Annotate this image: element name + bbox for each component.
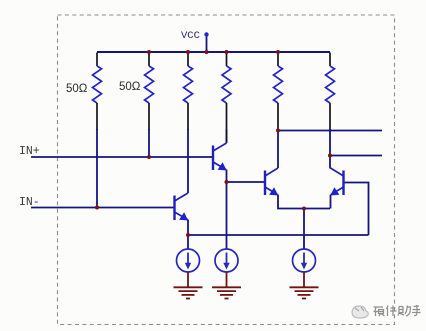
- node R6-outB: [328, 154, 332, 158]
- node rail-CS1: [186, 233, 190, 237]
- node bus-R4: [225, 50, 229, 54]
- ground G3: [290, 272, 319, 299]
- wire R3 bottom to Q2 collector: [187, 129, 189, 193]
- wire R2 bottom to IN+: [148, 129, 150, 157]
- svg-text:50Ω: 50Ω: [119, 81, 141, 93]
- wire output line B: [330, 155, 382, 157]
- node R2-IN+: [147, 155, 151, 159]
- node R1-IN-: [95, 206, 99, 210]
- watermark icon: [352, 306, 368, 318]
- wire common emitter down to CS3: [303, 209, 305, 250]
- resistor R4: [222, 53, 231, 131]
- transistor Q1: [213, 143, 227, 171]
- wire output line A: [278, 130, 382, 132]
- border dashed frame: [58, 15, 395, 325]
- wire Q2 emitter down to CS1: [187, 220, 189, 250]
- resistor R1 50ohm: [93, 53, 102, 131]
- glyph 3: [398, 306, 411, 317]
- ground G2: [212, 272, 241, 299]
- wire Q4 base feedback: [344, 183, 369, 236]
- svg-text:IN-: IN-: [19, 196, 40, 209]
- node bus-R2: [147, 50, 151, 54]
- node R5-outA: [276, 129, 280, 133]
- glyph 2: [387, 306, 397, 317]
- transistor Q2: [175, 193, 189, 221]
- wire IN+ net: [31, 156, 213, 158]
- ground G1: [174, 272, 203, 299]
- glyph 4: [412, 305, 421, 316]
- glyph 1: [374, 307, 385, 316]
- resistor R6: [326, 53, 335, 131]
- wire Q1 collector up: [226, 130, 228, 143]
- current source I2: [215, 249, 238, 272]
- wire R5 bottom to Q3 collector: [277, 129, 279, 168]
- resistor R5: [274, 53, 283, 131]
- wire R4 bottom to Q1 collector: [226, 129, 228, 143]
- node bus-VCC: [205, 50, 209, 54]
- wire Q3 emitter to common: [278, 195, 330, 209]
- svg-text:IN+: IN+: [19, 145, 40, 158]
- node bus-R3: [186, 50, 190, 54]
- wire VCC bus: [97, 51, 330, 53]
- current source I1: [177, 249, 200, 272]
- current source I3: [293, 249, 316, 272]
- node bus-R5: [276, 50, 280, 54]
- node diff-emitters: [302, 207, 306, 211]
- wire Q1 emitter down to rail: [226, 170, 228, 250]
- node Q1e-Q3b: [225, 180, 229, 184]
- resistor R3: [184, 53, 193, 131]
- wire VCC stub: [206, 37, 208, 53]
- wire Q4 emitter to common: [330, 195, 332, 209]
- resistor R2 50ohm: [145, 53, 154, 131]
- svg-text:50Ω: 50Ω: [66, 83, 88, 95]
- node VCC dot: [204, 32, 208, 36]
- watermark text: [374, 305, 421, 316]
- wire R1 bottom to IN-: [96, 129, 98, 208]
- wire Q1 emitter to Q3 base: [227, 181, 266, 183]
- wire R6 bottom to Q4 collector: [329, 129, 331, 169]
- wire emitter rail: [188, 234, 369, 236]
- transistor Q3: [265, 168, 278, 196]
- svg-text:VCC: VCC: [181, 30, 200, 42]
- wire IN- net: [31, 207, 175, 209]
- transistor Q4: [330, 168, 343, 196]
